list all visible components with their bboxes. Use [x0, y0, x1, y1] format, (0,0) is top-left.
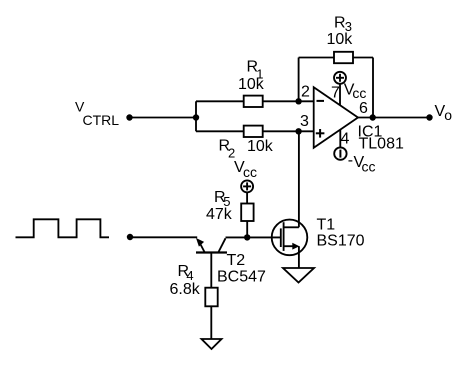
supply +Vcc terminal pin7	[334, 72, 346, 84]
svg-text:T2: T2	[227, 252, 246, 269]
node: split junction dot	[193, 114, 199, 120]
svg-text:6: 6	[359, 100, 368, 117]
wire R2 to op-amp pin3	[263, 130, 314, 132]
svg-text:TL081: TL081	[359, 136, 404, 153]
resistor R4 body	[205, 288, 217, 307]
svg-text:10k: 10k	[238, 76, 265, 93]
square wave input symbol	[16, 219, 110, 237]
wire T1 drain up to pin3 node	[298, 131, 300, 227]
node: gate junction dot	[244, 234, 250, 240]
resistor R1 body	[244, 96, 263, 107]
transistor T2 collector	[219, 238, 226, 252]
svg-text:o: o	[444, 107, 452, 123]
svg-text:cc: cc	[243, 164, 257, 180]
resistor R2 body	[244, 126, 263, 137]
wire to R1	[196, 100, 244, 102]
resistor R3 body	[334, 52, 353, 63]
T1 drain tap	[284, 226, 299, 228]
svg-text:BS170: BS170	[317, 233, 365, 250]
supply -Vcc terminal pin4	[334, 147, 346, 159]
transistor T2 emitter with arrow	[199, 241, 205, 253]
wire input to T2 emitter	[130, 236, 197, 238]
wire split vertical	[195, 101, 197, 131]
wire to R2	[196, 130, 244, 132]
node: VCTRL terminal dot	[126, 114, 132, 120]
wire R1 to op-amp pin2	[263, 100, 314, 102]
wire R4 to ground	[210, 306, 212, 339]
wire T2 base lead	[210, 253, 212, 288]
svg-text:4: 4	[341, 131, 350, 148]
svg-text:2: 2	[301, 83, 310, 100]
wire pin7	[339, 84, 341, 106]
transistor T1 MOSFET circle	[272, 220, 308, 256]
op-amp minus symbol	[317, 100, 325, 102]
wire pin4	[339, 130, 341, 148]
wire Vcc to R5	[246, 192, 248, 203]
svg-text:7: 7	[331, 85, 340, 102]
svg-text:T1: T1	[317, 217, 336, 234]
svg-text:cc: cc	[362, 159, 376, 175]
transistor Q T2 base bar	[196, 251, 227, 253]
svg-text:10k: 10k	[247, 138, 274, 155]
svg-text:cc: cc	[352, 85, 366, 101]
op-amp U IC1 triangle	[314, 87, 358, 148]
svg-text:3: 3	[300, 113, 309, 130]
wire output	[358, 117, 430, 119]
supply +Vcc terminal above R5	[241, 180, 253, 192]
node: output terminal dot	[426, 114, 432, 120]
wire T2 collector to gate node	[226, 236, 281, 238]
wire VCTRL to split	[130, 117, 197, 119]
T1 gate bar	[280, 228, 282, 247]
T1 source tap with arrow	[284, 245, 294, 247]
svg-text:BC547: BC547	[217, 269, 266, 286]
svg-text:47k: 47k	[206, 206, 233, 223]
node: pin3 junction dot	[295, 128, 301, 134]
ground (under T1)	[283, 268, 314, 283]
svg-text:6.8k: 6.8k	[170, 281, 201, 298]
svg-text:-: -	[348, 152, 353, 169]
resistor R5 body	[241, 204, 253, 222]
node: output junction dot	[370, 114, 376, 120]
ground (under R4)	[202, 339, 222, 349]
svg-text:CTRL: CTRL	[83, 112, 120, 128]
op-amp plus symbol	[316, 132, 325, 134]
wire R5 to gate node	[246, 221, 248, 237]
wire T1 source down	[298, 246, 300, 268]
node: pin2 junction dot	[295, 98, 301, 104]
T1 channel bar	[283, 222, 285, 251]
svg-text:10k: 10k	[327, 31, 354, 48]
wire feedback left vertical	[298, 58, 300, 102]
node: input terminal dot	[127, 234, 133, 240]
wire feedback top right	[353, 57, 373, 59]
wire feedback top left	[299, 57, 334, 59]
wire feedback right vertical	[372, 58, 374, 118]
